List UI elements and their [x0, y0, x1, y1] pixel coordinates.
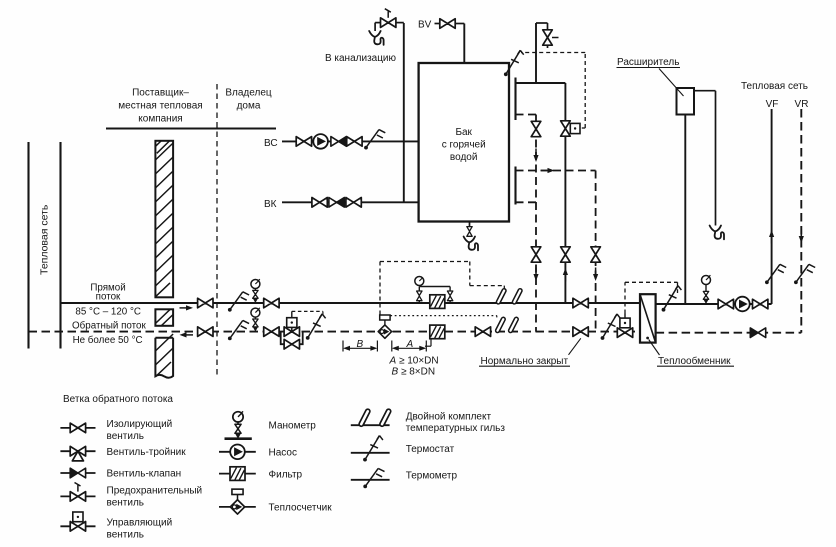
svg-text:Расширитель: Расширитель	[617, 57, 679, 68]
svg-text:компания: компания	[138, 114, 182, 125]
svg-text:Теплообменник: Теплообменник	[658, 355, 731, 367]
svg-text:с горячей: с горячей	[442, 140, 486, 151]
svg-text:85 °C – 120 °C: 85 °C – 120 °C	[75, 307, 141, 318]
svg-text:A: A	[406, 339, 414, 350]
svg-text:В канализацию: В канализацию	[325, 53, 397, 64]
svg-text:ВС: ВС	[264, 138, 278, 149]
svg-text:Тепловая сеть: Тепловая сеть	[741, 81, 808, 92]
svg-text:поток: поток	[96, 292, 121, 303]
svg-text:Насос: Насос	[269, 448, 297, 459]
svg-text:BV: BV	[418, 19, 432, 30]
svg-text:водой: водой	[450, 152, 478, 163]
svg-text:вентиль: вентиль	[107, 498, 145, 509]
svg-text:Фильтр: Фильтр	[269, 470, 303, 481]
svg-text:Тепловая сеть: Тепловая сеть	[39, 204, 51, 275]
svg-text:Двойной комплект: Двойной комплект	[406, 412, 492, 423]
svg-text:Не более 50 °C: Не более 50 °C	[73, 335, 143, 346]
svg-text:Управляющий: Управляющий	[107, 518, 173, 529]
svg-text:VF: VF	[766, 99, 779, 110]
svg-text:Ветка обратного потока: Ветка обратного потока	[63, 393, 173, 405]
svg-text:Обратный поток: Обратный поток	[72, 320, 146, 331]
svg-text:Изолирующий: Изолирующий	[107, 419, 173, 430]
svg-text:Предохранительный: Предохранительный	[107, 486, 203, 497]
svg-text:B ≥ 8×DN: B ≥ 8×DN	[392, 367, 436, 378]
svg-text:ВК: ВК	[264, 199, 277, 210]
svg-text:вентиль: вентиль	[107, 431, 145, 442]
svg-text:VR: VR	[795, 99, 809, 110]
svg-text:Термометр: Термометр	[406, 470, 458, 481]
svg-text:температурных гильз: температурных гильз	[406, 423, 506, 434]
svg-text:Вентиль-тройник: Вентиль-тройник	[107, 447, 187, 458]
svg-text:Вентиль-клапан: Вентиль-клапан	[107, 469, 182, 480]
svg-text:Теплосчетчик: Теплосчетчик	[269, 503, 333, 514]
svg-text:Нормально закрыт: Нормально закрыт	[481, 356, 569, 367]
svg-text:Владелец: Владелец	[225, 88, 272, 99]
svg-text:B: B	[357, 339, 364, 350]
svg-text:Манометр: Манометр	[269, 421, 317, 432]
svg-text:вентиль: вентиль	[107, 530, 145, 541]
svg-text:Бак: Бак	[455, 127, 472, 138]
svg-text:A ≥ 10×DN: A ≥ 10×DN	[389, 356, 439, 367]
svg-text:местная тепловая: местная тепловая	[118, 101, 202, 112]
svg-text:Поставщик–: Поставщик–	[132, 88, 189, 99]
svg-text:дома: дома	[237, 101, 261, 112]
svg-text:Термостат: Термостат	[406, 444, 455, 455]
